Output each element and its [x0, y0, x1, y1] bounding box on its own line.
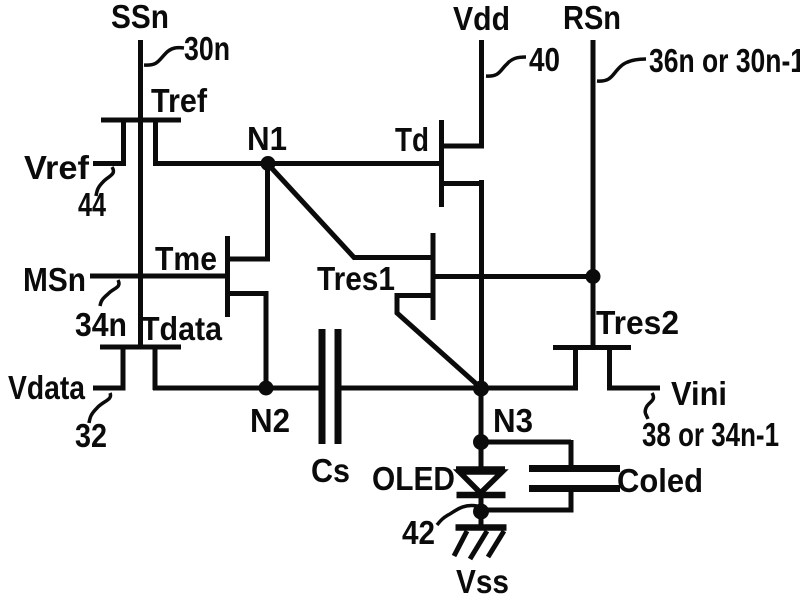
wire Coled branch top — [478, 440, 571, 445]
svg-text:40: 40 — [529, 41, 560, 78]
label Tres2 — [596, 304, 679, 341]
wire Coled vertical lower — [569, 488, 574, 513]
transistor Tme bottom lead — [227, 291, 269, 296]
transistor Tres1 drain lead — [353, 255, 433, 260]
wire Vdd vertical line (net 40) — [479, 40, 484, 148]
wire Tref to N1 to Td gate — [153, 161, 439, 166]
label 42 — [402, 514, 435, 551]
svg-text:Tres1: Tres1 — [317, 260, 395, 297]
transistor Tres2 gate bar — [553, 345, 631, 350]
wire Tres1 gate to RSn — [433, 274, 593, 279]
transistor Tref gate bar — [101, 118, 181, 123]
capacitor Cs left plate — [319, 329, 326, 444]
leader line for 34n — [100, 280, 119, 306]
capacitor Coled bottom plate — [529, 485, 620, 492]
svg-text:Coled: Coled — [617, 462, 703, 499]
svg-text:Vdd: Vdd — [453, 0, 510, 37]
leader line for 36n or 30n-1 — [597, 59, 646, 81]
wire MSn horizontal — [90, 274, 226, 279]
label Tdata — [141, 310, 223, 347]
svg-text:Cs: Cs — [311, 452, 350, 489]
svg-text:N3: N3 — [493, 402, 533, 439]
label RSn — [563, 0, 621, 36]
wire Vini stub (net 38 or 34n-1) — [607, 386, 660, 391]
label 36n or 30n-1 — [649, 42, 800, 79]
svg-text:42: 42 — [402, 514, 435, 551]
svg-text:Tme: Tme — [155, 240, 217, 277]
wire Coled branch return — [481, 508, 574, 513]
ground Vss slash 3 — [488, 531, 504, 557]
label Vref — [24, 149, 90, 186]
label Tme — [155, 240, 217, 277]
label 38 or 34n-1 — [642, 416, 779, 453]
label 30n — [184, 30, 230, 67]
label SSn — [111, 0, 169, 35]
capacitor Cs right plate — [335, 329, 342, 444]
svg-text:Vini: Vini — [671, 375, 727, 412]
svg-text:34n: 34n — [75, 306, 127, 343]
svg-text:N2: N2 — [250, 402, 290, 439]
label Vss — [456, 563, 509, 600]
leader line for 38 or 34n-1 — [645, 393, 653, 419]
label N3 — [493, 402, 533, 439]
transistor Td source lead — [441, 181, 484, 186]
diode OLED cathode bar — [457, 492, 506, 499]
transistor Tres2 left lead — [573, 348, 578, 391]
transistor Td gate bar — [439, 120, 444, 207]
label Tref — [151, 82, 208, 119]
wire RSn vertical line (net 36n or 30n-1) — [591, 40, 596, 350]
node OLED anode junction dot — [473, 434, 489, 450]
label MSn — [23, 261, 86, 298]
transistor Tdata left lead — [121, 347, 126, 390]
transistor Tref right lead — [153, 120, 158, 166]
label Vdd — [453, 0, 510, 37]
ground Vss slash 1 — [454, 531, 467, 556]
transistor Tme gate bar — [225, 236, 230, 317]
wire Td source down to N3 — [479, 180, 484, 391]
transistor Tres1 gate bar — [431, 233, 436, 320]
wire Cs right plate to N3 to Tres2 — [341, 386, 576, 391]
svg-text:38 or 34n-1: 38 or 34n-1 — [642, 416, 779, 453]
transistor Tref left lead — [121, 120, 126, 166]
label 40 — [529, 41, 560, 78]
wire N3 down to OLED anode — [479, 386, 484, 469]
svg-text:Vss: Vss — [456, 563, 509, 600]
leader line for 44 — [96, 167, 113, 196]
wire SSn vertical line (net 30n) — [138, 40, 143, 349]
leader line for 30n — [144, 48, 184, 65]
svg-text:N1: N1 — [247, 120, 287, 157]
wire Vdata stub — [93, 386, 126, 391]
label 32 — [75, 417, 107, 454]
wire bottom run Tdata to Cs left plate — [153, 386, 319, 391]
label 44 — [78, 186, 106, 223]
wire Vref stub — [93, 161, 126, 166]
node OLED cathode junction dot — [473, 504, 489, 520]
svg-text:SSn: SSn — [111, 0, 169, 35]
diode OLED anode bar — [456, 466, 505, 473]
diode OLED triangle — [460, 472, 503, 493]
wire N1 to Tme drain — [265, 161, 270, 261]
label OLED — [372, 460, 455, 497]
transistor Tme top lead — [227, 257, 270, 262]
svg-text:Vref: Vref — [24, 149, 90, 186]
svg-text:Tdata: Tdata — [141, 310, 223, 347]
wire cathode to ground — [479, 495, 484, 529]
node N2 junction dot — [259, 381, 274, 396]
wire Tme source to N2 — [264, 291, 269, 391]
svg-text:36n or 30n-1: 36n or 30n-1 — [649, 42, 800, 79]
leader line for 42 — [437, 505, 477, 525]
svg-text:30n: 30n — [184, 30, 230, 67]
transistor Tres2 right lead — [607, 348, 612, 391]
node N3 junction dot — [473, 381, 489, 397]
transistor Tdata gate bar — [100, 345, 181, 350]
leader line for 32 — [89, 393, 111, 423]
svg-text:Tref: Tref — [151, 82, 208, 119]
svg-text:RSn: RSn — [563, 0, 621, 36]
svg-text:MSn: MSn — [23, 261, 86, 298]
svg-text:32: 32 — [75, 417, 107, 454]
svg-text:44: 44 — [78, 186, 106, 223]
capacitor Coled top plate — [529, 465, 620, 472]
transistor Tres1 source lead with jog and diagonal to N3 — [397, 296, 482, 390]
svg-text:OLED: OLED — [372, 460, 455, 497]
node N1 junction dot — [261, 156, 276, 171]
leader line for 40 — [486, 57, 526, 76]
label Vdata — [8, 369, 86, 406]
svg-text:Vdata: Vdata — [8, 369, 86, 406]
transistor Tdata right lead — [153, 347, 158, 390]
label N2 — [250, 402, 290, 439]
label N1 — [247, 120, 287, 157]
node RSn junction dot — [586, 269, 601, 284]
label Cs — [311, 452, 350, 489]
label Vini — [671, 375, 727, 412]
label 34n — [75, 306, 127, 343]
ground Vss bar — [456, 524, 507, 531]
label Td — [395, 121, 429, 158]
transistor Td drain lead — [441, 144, 484, 149]
wire Coled vertical upper — [569, 440, 574, 469]
label Coled — [617, 462, 703, 499]
diagonal wire N1 to Tres1 drain — [266, 162, 355, 259]
ground Vss slash 2 — [470, 531, 487, 559]
svg-text:Td: Td — [395, 121, 429, 158]
label Tres1 — [317, 260, 395, 297]
svg-text:Tres2: Tres2 — [596, 304, 679, 341]
